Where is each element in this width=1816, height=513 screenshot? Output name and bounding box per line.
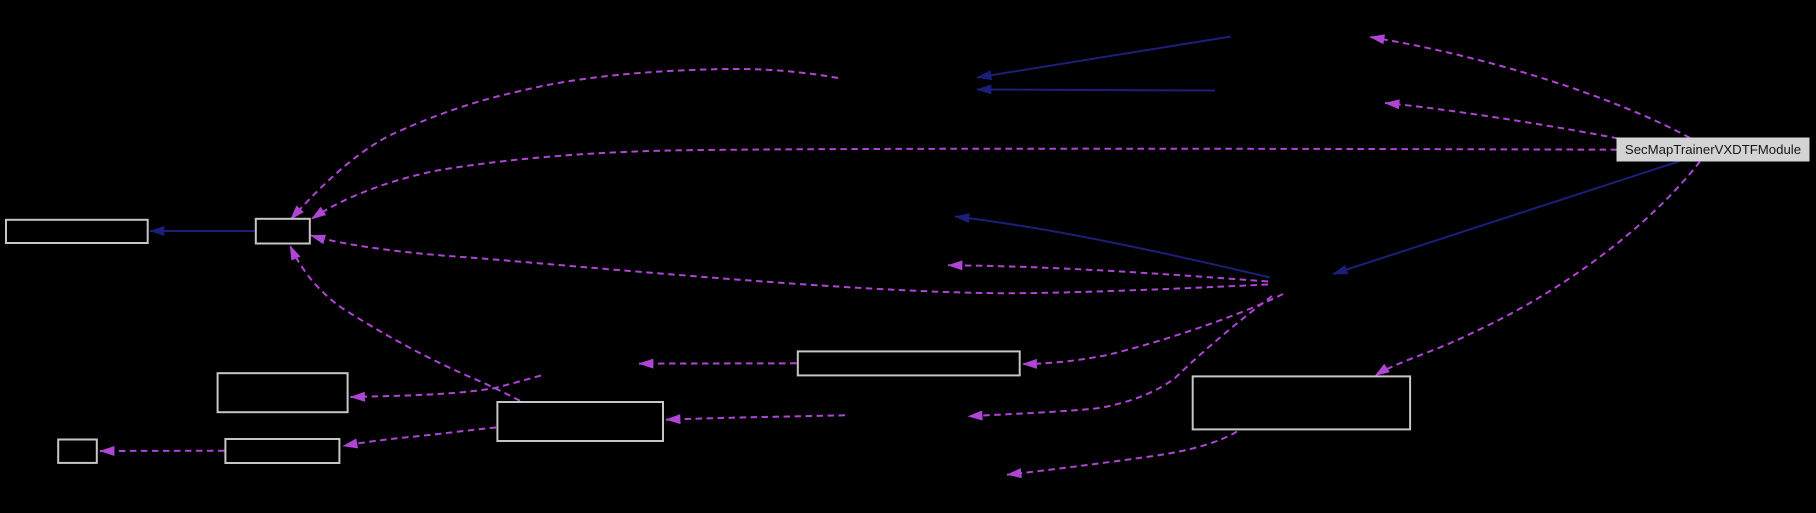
wire: navy solid edge upper to mid-air arrowhead — [977, 37, 1231, 78]
node SecMapTrainerVXDTFModule — [1617, 138, 1809, 161]
wire: dashed edge mid-air to node D right edge — [666, 415, 845, 419]
svg-text:SecMapTrainerVXDTFModule: SecMapTrainerVXDTFModule — [1625, 142, 1801, 157]
wire: navy solid edge main node to center node — [1333, 161, 1680, 274]
wire: dashed edge node D left to node F right — [343, 428, 496, 447]
wire: dashed arc edge to node B top — [291, 69, 839, 220]
wire: dashed edge main node to mid-air arrowhead lower — [1385, 103, 1618, 139]
node G — [798, 351, 1020, 375]
wire: navy solid edge node B to node A — [150, 230, 255, 232]
node D — [497, 402, 663, 441]
wire: long dashed edge center node to node B right edge — [311, 235, 1268, 293]
wire: dashed edge main node to mid-air arrowhead upper — [1370, 37, 1690, 138]
wire: dashed edge center node to mid-air arrowhead left — [948, 265, 1268, 281]
node E — [58, 440, 97, 463]
wire: dashed edge node F to node E — [100, 450, 224, 452]
node A — [6, 220, 148, 243]
wire: long dashed edge main node to node B top-right corner — [312, 149, 1618, 219]
node H — [1193, 376, 1410, 429]
wire: dashed edge node H bottom to mid-air arrowhead bottom — [1007, 432, 1237, 475]
wire: dashed edge node G to mid-air arrowhead — [639, 362, 797, 364]
node F — [225, 439, 339, 463]
node C — [218, 373, 348, 412]
wire: dashed edge center node to mid-air arrowhead lower-left — [968, 296, 1272, 416]
wire: navy solid edge horizontal to mid-air arrowhead — [977, 90, 1215, 91]
node B — [256, 219, 310, 244]
wire: dashed edge main node to node H top — [1375, 162, 1700, 376]
wire: dashed edge to node C right edge — [351, 376, 542, 398]
wire: dashed edge center node to node G right edge — [1023, 294, 1284, 364]
wire: navy solid edge center node to mid-air arrowhead — [955, 217, 1270, 278]
wire: dashed edge node D top to node B bottom — [290, 246, 520, 401]
